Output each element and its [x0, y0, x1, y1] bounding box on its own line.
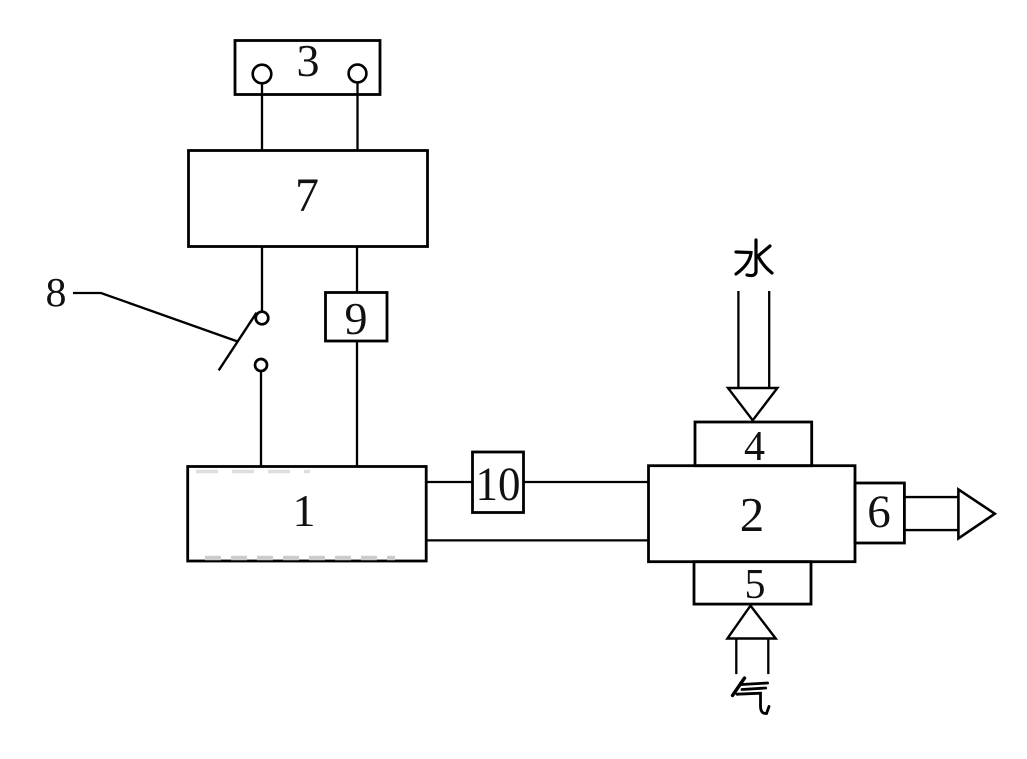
svg-text:9: 9	[345, 293, 368, 344]
svg-text:8: 8	[46, 269, 67, 315]
water inlet arrow head	[728, 388, 777, 420]
wire left circle to box 7	[261, 84, 263, 151]
label 5	[745, 562, 766, 608]
wire right circle to box 7	[356, 83, 358, 151]
box 4	[695, 422, 812, 466]
box 10	[473, 452, 524, 513]
wire box 9 to box 1	[356, 341, 358, 467]
air inlet arrow head	[727, 606, 775, 639]
box 1	[188, 467, 427, 562]
air inlet arrow shaft	[736, 639, 768, 675]
box 2	[649, 466, 856, 562]
svg-text:6: 6	[867, 486, 891, 538]
water label 水	[736, 240, 772, 276]
wire box 7 to box 9	[356, 247, 358, 293]
svg-text:3: 3	[297, 35, 320, 86]
box 5	[694, 562, 811, 604]
output arrow shaft lines	[904, 497, 958, 530]
svg-text:7: 7	[295, 169, 319, 222]
label 3	[297, 35, 320, 86]
svg-text:4: 4	[744, 424, 765, 470]
terminal circle left in box 3	[253, 65, 272, 84]
terminal circle right in box 3	[349, 65, 367, 83]
label 10	[476, 458, 521, 511]
air label 气	[733, 678, 770, 714]
svg-text:1: 1	[293, 485, 316, 536]
label 4	[744, 424, 765, 470]
wire switch to box 1	[260, 371, 262, 467]
svg-text:2: 2	[740, 487, 765, 542]
label 8	[46, 269, 67, 315]
wire box 7 to switch	[261, 247, 263, 312]
switch contact circle top	[256, 312, 269, 325]
upper wire box 1 to box 10	[426, 481, 472, 483]
output arrow head	[958, 489, 994, 538]
label 7	[295, 169, 319, 222]
label 2	[740, 487, 765, 542]
svg-text:5: 5	[745, 562, 766, 608]
box 3	[235, 41, 380, 95]
label 1	[293, 485, 316, 536]
switch lever	[219, 313, 257, 371]
label 6	[867, 486, 891, 538]
lower wire box 1 to box 2	[426, 539, 648, 541]
box 6	[855, 483, 904, 543]
box 7	[189, 151, 428, 247]
leader line from label 8 to switch lever	[73, 293, 238, 342]
water inlet arrow shaft	[738, 291, 769, 388]
switch contact circle bottom	[255, 359, 267, 371]
svg-text:10: 10	[476, 458, 521, 511]
upper wire box 10 to box 2	[524, 481, 649, 483]
label 9	[345, 293, 368, 344]
box 9	[326, 293, 388, 342]
